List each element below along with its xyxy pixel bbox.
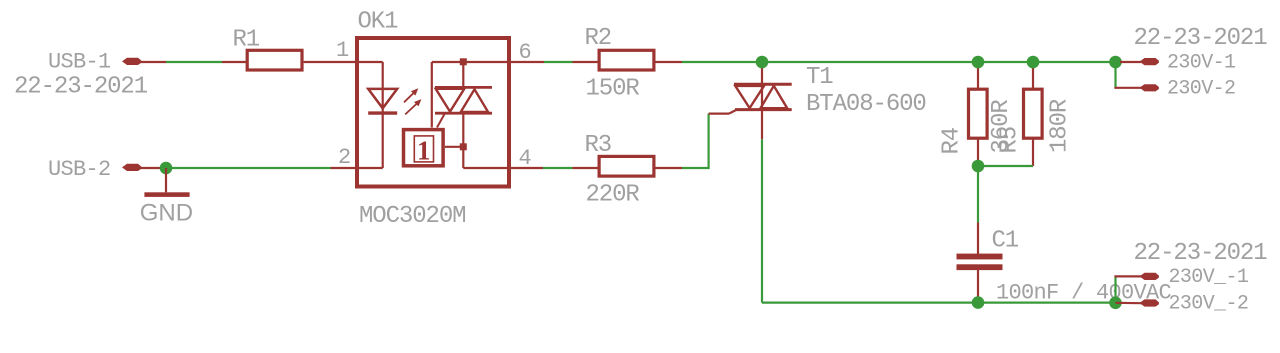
pin number 4 [519, 146, 532, 171]
pin stub C1 top [977, 223, 979, 255]
pin stub OK1 pin6 [509, 61, 544, 63]
pin stub R4 top [977, 62, 979, 88]
svg-text:MOC3020M: MOC3020M [359, 203, 465, 230]
svg-text:1: 1 [336, 38, 349, 63]
pin stub 230V_-2 [1116, 302, 1142, 305]
terminal pad 230V-1 [1140, 58, 1159, 65]
label 230V_-2 [1169, 293, 1249, 316]
svg-text:230V-1: 230V-1 [1167, 52, 1236, 75]
wire phototriac anode internal [462, 62, 464, 87]
phototriac inside OK1 [435, 87, 492, 113]
pin stub R4 bottom [977, 138, 979, 166]
label R5 rotated [997, 127, 1024, 154]
light arrow 2 [405, 99, 421, 114]
terminal pad USB-1 [122, 58, 141, 65]
junction node R5 top [1027, 56, 1040, 69]
pin stub R5 top [1032, 62, 1034, 88]
op-amp: optocoupler OK1 box [357, 38, 509, 187]
label MOC3020M [359, 203, 465, 230]
pin stub 230V-1 [1120, 61, 1141, 63]
junction node T1 top [756, 56, 769, 69]
wire box-1 to phototriac [445, 146, 463, 148]
label USB-2 [48, 157, 111, 182]
label date 22-23-2021 left [14, 74, 148, 101]
pin stub OK1 pin 2 [331, 167, 358, 169]
svg-text:6: 6 [519, 40, 532, 65]
svg-text:180R: 180R [1047, 99, 1074, 153]
pin stub R5 bottom [1032, 138, 1034, 166]
node junction square bottom inside OK1 [460, 143, 467, 150]
pin number 1 [336, 38, 349, 63]
resistor R3 [599, 156, 654, 176]
pin stub R3 left [573, 167, 599, 169]
wire OK1 pin2 internal [357, 167, 383, 169]
label USB-1 [48, 50, 111, 75]
pin stub R1 left [222, 61, 246, 63]
junction node R4 top [972, 56, 985, 69]
terminal pad USB-2 [122, 164, 141, 171]
svg-text:4: 4 [519, 146, 532, 171]
pin stub 230V_-1 [1114, 275, 1141, 277]
wire net 230V_-1 rise [1114, 276, 1116, 302]
terminal pad 230V-2 [1140, 84, 1159, 91]
wire phototriac cathode internal [462, 113, 464, 168]
svg-text:R2: R2 [585, 25, 612, 52]
wire net pin4 to R3 [543, 167, 573, 169]
pin number 2 [338, 145, 351, 170]
svg-text:230V_-2: 230V_-2 [1169, 293, 1249, 316]
label R3 [585, 132, 612, 159]
label 100nF / 400VAC [996, 281, 1172, 306]
label GND [140, 200, 193, 227]
wire net T1 MT1 down to bottom rail [761, 139, 763, 302]
pin stub USB-2 [140, 167, 166, 169]
capacitor C1 [957, 254, 1003, 270]
svg-text:22-23-2021: 22-23-2021 [14, 74, 148, 101]
label 230V-2 [1167, 78, 1235, 101]
label R1 [233, 27, 260, 54]
junction node top right [1109, 56, 1122, 69]
junction node bottom right [1109, 297, 1122, 310]
light arrow 1 [404, 88, 418, 102]
svg-text:OK1: OK1 [358, 9, 399, 36]
resistor R5 [1024, 89, 1043, 138]
label T1 [806, 64, 833, 91]
label BTA08-600 [806, 91, 926, 118]
wire net USB-2 to OK1 pin 2 [166, 167, 331, 169]
svg-text:230V_-1: 230V_-1 [1169, 266, 1249, 289]
svg-text:22-23-2021: 22-23-2021 [1134, 240, 1268, 267]
pin stub 230V-2 [1114, 87, 1141, 89]
pin stub USB-1 [140, 61, 166, 63]
pin stub R2 left [573, 61, 599, 63]
wire R1 to OK1 pin 1 [304, 61, 357, 63]
terminal pad 230V_-2 [1140, 299, 1159, 306]
svg-text:USB-1: USB-1 [48, 50, 111, 75]
svg-text:C1: C1 [992, 228, 1019, 255]
wire OK1 pin4 internal [463, 167, 509, 169]
terminal pad 230V_-1 [1140, 273, 1159, 280]
wire net 230V-2 drop [1114, 62, 1116, 88]
svg-text:R4: R4 [939, 127, 966, 154]
svg-text:R3: R3 [585, 132, 612, 159]
svg-text:USB-2: USB-2 [48, 157, 111, 182]
resistor R4 [969, 89, 988, 138]
phototriac gate diagonal [437, 114, 445, 128]
junction node USB-2/GND [160, 162, 173, 175]
node junction square top inside OK1 [460, 58, 467, 65]
wire net bottom rail [762, 302, 1116, 304]
pin stub C1 bottom [977, 270, 979, 303]
svg-text:T1: T1 [806, 64, 833, 91]
junction node R4 bottom [972, 160, 985, 173]
svg-text:220R: 220R [586, 182, 640, 209]
wire OK1 pin1 internal [357, 62, 383, 87]
LED D1 inside OK1 [368, 87, 397, 168]
label date 22-23-2021 top right [1134, 25, 1268, 52]
svg-text:22-23-2021: 22-23-2021 [1134, 25, 1268, 52]
resistor R1 [247, 50, 302, 70]
label 220R [586, 182, 640, 209]
ground GND symbol [144, 168, 189, 197]
pin stub R3 right [656, 167, 683, 169]
resistor R2 [599, 50, 654, 70]
label 150R [586, 76, 640, 103]
svg-text:2: 2 [338, 145, 351, 170]
wire net R3 to T1 gate [682, 114, 709, 170]
pin stub R2 right [656, 61, 683, 63]
label 360R rotated [988, 100, 1015, 154]
wire net R2 to 230V-1 top rail [682, 61, 1116, 63]
svg-text:1: 1 [417, 136, 431, 166]
label R2 [585, 25, 612, 52]
svg-text:230V-2: 230V-2 [1167, 78, 1235, 101]
label 230V_-1 [1169, 266, 1249, 289]
pin number 6 [519, 40, 532, 65]
pin stub OK1 pin4 [509, 167, 543, 169]
svg-text:150R: 150R [586, 76, 640, 103]
wire net pin6 to R2 [544, 61, 573, 63]
label C1 [992, 228, 1019, 255]
svg-text:R5: R5 [997, 127, 1024, 154]
svg-text:R1: R1 [233, 27, 260, 54]
wire net USB-1 to R1 [166, 61, 222, 63]
wire net R4/R5 bottom [978, 166, 1033, 223]
label 180R rotated [1047, 99, 1074, 153]
transistor T1 triac [734, 62, 792, 139]
wire OK1 pin6 internal [432, 62, 509, 128]
label date 22-23-2021 bottom right [1134, 240, 1268, 267]
svg-text:BTA08-600: BTA08-600 [806, 91, 926, 118]
pin stub T1 gate [709, 110, 736, 114]
label 230V-1 [1167, 52, 1236, 75]
label OK1 [358, 9, 399, 36]
label R4 rotated [939, 127, 966, 154]
svg-text:GND: GND [140, 200, 193, 227]
junction node C1 bottom [972, 296, 985, 309]
marker box with numeral 1 inside OK1 [404, 130, 444, 166]
